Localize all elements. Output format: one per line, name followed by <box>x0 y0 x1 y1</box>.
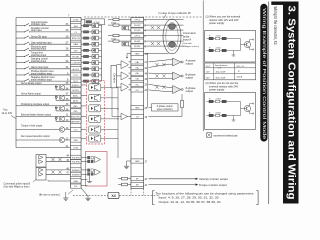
node sidebar chapter bar <box>283 2 299 204</box>
resistor row note 115.5 <box>207 115 241 117</box>
svg-text:COM+: COM+ <box>73 20 80 22</box>
wire dashed connector X4 line <box>73 194 160 196</box>
wire pin 30 internal <box>81 31 84 33</box>
svg-text:GAIN: GAIN <box>73 43 79 46</box>
twisted pair mark SIGN <box>151 42 154 45</box>
optocoupler input 31 <box>92 67 99 71</box>
wire pulse external <box>144 40 184 42</box>
svg-text:output: output <box>186 62 194 66</box>
svg-text:500kpps or less.): 500kpps or less.) <box>183 45 200 48</box>
wire input row 30 to pin <box>30 31 71 33</box>
pin box SIGN1 (5) <box>131 39 144 43</box>
connector right pin column outline <box>131 18 144 189</box>
resistor 220ohm <box>113 19 119 21</box>
note table <box>205 63 256 80</box>
svg-text:Torque monitor output: Torque monitor output <box>199 183 227 187</box>
pin box A-CLR <box>71 67 82 71</box>
switch input 31 <box>24 67 30 70</box>
svg-text:Velocity monitor output: Velocity monitor output <box>199 177 228 181</box>
pin box INP+ <box>71 104 82 108</box>
optocoupler input 32 <box>92 61 99 65</box>
pin box OPC2 (2) <box>131 34 144 38</box>
svg-text:220Ω: 220Ω <box>111 39 116 41</box>
svg-text:SRV-ON: SRV-ON <box>72 38 80 40</box>
resistor input 29 <box>84 37 89 39</box>
wire input row 9 leader <box>16 74 25 76</box>
svg-text:A-CLR: A-CLR <box>73 68 80 71</box>
twisted pair blobs in cable <box>169 24 176 30</box>
switch input 33 <box>24 24 30 27</box>
svg-text:OPC2: OPC2 <box>134 36 141 38</box>
wire GND13 internal <box>127 53 131 55</box>
svg-text:24V: 24V <box>206 77 210 79</box>
wire velocity monitor output <box>149 178 196 180</box>
svg-text:Alarm clear input: Alarm clear input <box>31 66 49 69</box>
connector left pin column outline <box>71 18 82 188</box>
pin box GND (17) <box>131 159 144 163</box>
twisted pair mark PULS <box>151 26 154 29</box>
svg-text:Wiring Example of Position Con: Wiring Example of Position Control Mode <box>262 8 267 140</box>
wire input row 8 leader <box>16 80 25 82</box>
pin box OPC1 (1) <box>131 18 144 22</box>
svg-text:S-RDY-: S-RDY- <box>72 90 79 92</box>
wire input row 27 to pin <box>30 43 71 45</box>
wire internal COM bus vertical <box>117 87 119 158</box>
twisted pair mark B-input lower <box>51 171 54 174</box>
wire pulse external <box>144 45 184 47</box>
resistor input 26 <box>84 55 89 57</box>
svg-text:clear input: clear input <box>31 29 42 32</box>
svg-text:SIGN1: SIGN1 <box>134 41 141 43</box>
ground symbol below X4 line left <box>63 196 68 201</box>
resistor input 8 <box>84 80 89 82</box>
optocoupler input 30 <box>92 30 99 34</box>
svg-text:220Ω: 220Ω <box>111 23 116 25</box>
wire pin 8 internal <box>81 80 84 82</box>
line driver 87.1 <box>121 83 129 91</box>
svg-text:INP+: INP+ <box>73 106 78 108</box>
svg-text:VDC−1.5: VDC−1.5 <box>237 66 245 68</box>
wire Vcc arrow leader <box>11 116 16 119</box>
pin box BRKOFF- <box>71 119 82 123</box>
resistor CZ pull-up <box>181 101 184 108</box>
ground mark note <box>233 116 235 121</box>
wire input row 28 to pin <box>30 49 71 51</box>
svg-text:X4: X4 <box>111 194 115 198</box>
optocoupler input 33 <box>92 24 99 28</box>
wire pin 9 internal <box>81 74 84 76</box>
receiver amp PULSH <box>95 157 101 163</box>
svg-text:COM-: COM- <box>73 148 79 150</box>
svg-text:travel inhibition input: travel inhibition input <box>31 72 52 75</box>
resistor row note 50.5 <box>207 50 241 52</box>
pin box ALM+ <box>71 93 82 97</box>
pin box GND <box>71 179 82 183</box>
wire COM+ internal <box>81 19 102 21</box>
wire dashed driver top boundary <box>84 16 203 18</box>
photocoupler output INP <box>89 105 101 112</box>
pin box CL <box>71 30 82 34</box>
ground mark note <box>233 51 235 56</box>
svg-text:12V: 12V <box>206 71 210 73</box>
resistor input 9 <box>84 74 89 76</box>
optocoupler input 28 <box>92 48 99 52</box>
output section Torque in-limit output <box>16 129 71 131</box>
wire pin 29 internal <box>81 37 84 39</box>
resistor input 32 <box>84 62 89 64</box>
switch input 27 <box>24 42 30 45</box>
svg-text:PULS1: PULS1 <box>134 25 141 27</box>
wire dashed right column drop left <box>130 189 132 195</box>
receiver A-phase <box>173 58 182 66</box>
output section Servo-Ready output <box>56 84 71 86</box>
svg-text:SIGNH1: SIGNH1 <box>72 170 81 172</box>
svg-text:2kΩ, 1/2W: 2kΩ, 1/2W <box>216 77 226 79</box>
resistor row note 38.5 <box>207 38 241 40</box>
svg-text:Vcc: Vcc <box>3 108 8 112</box>
svg-text:power supply: power supply <box>209 88 225 92</box>
wire pin 28 internal <box>81 49 84 51</box>
optocoupler input 9 <box>92 73 99 77</box>
svg-text:FG: FG <box>74 186 77 188</box>
svg-text:Gain switching input: Gain switching input <box>31 41 52 44</box>
output section External brake release output <box>56 115 71 117</box>
svg-text:travel inhibition input: travel inhibition input <box>31 78 52 81</box>
driver triangle B1 <box>39 168 43 172</box>
pin box PULS2 (4) <box>131 28 144 32</box>
wire pulse external <box>144 29 184 31</box>
svg-text:switching input: switching input <box>31 60 46 63</box>
wire page divider line <box>268 2 270 205</box>
resistor network receiver SIGNH <box>88 169 90 172</box>
receiver B-phase <box>173 72 182 80</box>
pin box INP- <box>71 109 82 113</box>
pin box CZ (19) <box>131 114 144 118</box>
optocoupler input 8 <box>92 79 99 83</box>
pin box GND (25) <box>131 106 144 110</box>
pin box PULS1 (3) <box>131 23 144 27</box>
wire input row 29 to pin <box>30 37 71 39</box>
pin box COM+ <box>71 18 82 22</box>
wire input row 32 leader <box>16 62 25 64</box>
switch input 30 <box>24 30 30 33</box>
pin box GAIN <box>71 42 82 46</box>
svg-text:PULSH1: PULSH1 <box>72 157 81 159</box>
svg-text:OZ-: OZ- <box>135 90 139 92</box>
svg-text:INH: INH <box>74 26 78 28</box>
svg-text:input A: input A <box>183 38 191 42</box>
svg-text:Positioning complete output: Positioning complete output <box>21 103 50 106</box>
module box 4.7k ohm COM+ <box>85 19 105 25</box>
driver triangle A2 <box>39 160 43 164</box>
pin box OA- (22) <box>131 65 144 69</box>
pin box FG <box>71 184 82 188</box>
wire GND25 external <box>149 107 155 109</box>
svg-text:4.7kΩ: 4.7kΩ <box>216 98 222 100</box>
bracket note about pin functions <box>153 191 155 205</box>
line driver 75.9 <box>121 72 129 80</box>
wire input row 31 leader <box>16 68 25 70</box>
pin box DIV <box>71 48 82 52</box>
wire driver gnd drop <box>47 180 49 181</box>
node sidebar black strip top <box>271 2 298 5</box>
svg-text:3. System Configuration and Wi: 3. System Configuration and Wiring <box>285 6 296 200</box>
svg-text:(open collector): (open collector) <box>157 108 173 111</box>
svg-text:C-MODE: C-MODE <box>72 63 81 65</box>
svg-text:GND: GND <box>135 54 140 56</box>
resistor IM <box>122 183 128 186</box>
wire encoder pair A-phase <box>149 60 169 62</box>
wire encoder pair Z-phase <box>149 84 169 87</box>
pin box NOT <box>71 79 82 83</box>
svg-text:OPC1: OPC1 <box>134 20 141 22</box>
svg-text:4.7kΩ: 4.7kΩ <box>216 112 222 114</box>
pin box ALM- <box>71 98 82 102</box>
pin box POT <box>71 73 82 77</box>
resistor pulse <box>113 24 119 26</box>
wire pin 26 internal <box>81 56 84 58</box>
optocoupler pulse <box>122 42 129 46</box>
svg-text:BRKOFF-: BRKOFF- <box>71 121 80 123</box>
wire input row 9 to pin <box>30 74 71 76</box>
wire pulse external <box>144 35 184 37</box>
output section Servo-Alarm output <box>56 94 71 96</box>
photocoupler output ALM <box>89 94 101 101</box>
svg-text:Input: 4, 9, 26, 27, 28, 29, 3: Input: 4, 9, 26, 27, 28, 29, 30, 31, 32,… <box>159 197 220 200</box>
wire pulse external <box>144 19 184 21</box>
resistor row note 101.5 <box>207 101 241 103</box>
photocoupler output S-RDY <box>89 84 101 91</box>
svg-text:INP-: INP- <box>74 111 78 113</box>
wire input row 31 to pin <box>30 68 71 70</box>
svg-text:inhibition input: inhibition input <box>31 23 46 26</box>
svg-text:ALM+: ALM+ <box>73 94 79 97</box>
pin box S-RDY+ <box>71 83 82 87</box>
pin box INH <box>71 24 82 28</box>
wire input row 32 to pin <box>30 62 71 64</box>
svg-text:SIGN2: SIGN2 <box>134 46 141 48</box>
svg-text:ALM-: ALM- <box>73 99 78 102</box>
svg-text:Zero speed detection output: Zero speed detection output <box>21 135 50 138</box>
wire internal COM+ bus <box>101 20 103 82</box>
svg-text:of R: of R <box>218 68 222 70</box>
pin box SP (43) <box>131 177 144 181</box>
ground symbol signal gnd <box>124 164 129 169</box>
svg-text:Output: 10·11, 12, 34·35, 36·3: Output: 10·11, 12, 34·35, 36·37, 38·39, … <box>159 201 222 204</box>
wire COM- row <box>16 147 71 149</box>
svg-text:switching input: switching input <box>31 54 46 57</box>
svg-text:Command pulse input B: Command pulse input B <box>4 182 31 185</box>
wire Vcc supply bus vertical <box>15 18 17 148</box>
svg-text:POT: POT <box>74 75 79 77</box>
wire input row 28 leader <box>16 49 25 51</box>
optocoupler pulse <box>122 26 129 30</box>
svg-text:PULS2: PULS2 <box>134 30 141 32</box>
svg-text:TLC: TLC <box>74 130 78 132</box>
highlight red solid box (high-speed pulse receivers) <box>86 152 108 187</box>
svg-text:IM: IM <box>136 185 139 187</box>
svg-text:Wiring to the connector, X4: Wiring to the connector, X4 <box>273 7 278 45</box>
svg-text:Z-phase output: Z-phase output <box>157 105 173 108</box>
svg-text:The functions of the following: The functions of the following pin can b… <box>155 192 254 195</box>
note twisted pair legend <box>207 133 212 137</box>
driver triangle B2 <box>39 173 43 177</box>
resistor pulse <box>113 40 119 42</box>
svg-text:1kΩ, 1/2W: 1kΩ, 1/2W <box>216 71 226 73</box>
resistor SP <box>122 177 128 180</box>
wire input row 26 leader <box>16 56 25 58</box>
transistor note <box>240 39 242 51</box>
svg-text:Torque in-limit output: Torque in-limit output <box>21 125 43 128</box>
resistor 220ohm <box>113 35 119 37</box>
wire input row 29 leader <box>16 37 25 39</box>
wire receiver gnd drop <box>89 176 91 182</box>
svg-text:output: output <box>186 89 194 93</box>
pin box SIGNH2 <box>71 172 82 176</box>
svg-text:switching input: switching input <box>31 48 46 51</box>
label Z-phase output open collector <box>152 104 179 111</box>
cable shield oval (twisted pair bundle) <box>163 19 181 54</box>
svg-text:PULSH2: PULSH2 <box>72 162 81 164</box>
pin box BRKOFF+ <box>71 114 82 118</box>
photocoupler output TLC <box>89 126 101 133</box>
svg-text:V DC: V DC <box>206 66 211 68</box>
svg-text:12 to 24V: 12 to 24V <box>2 112 13 115</box>
line driver CZ <box>111 88 113 117</box>
pin box OB+ (48) <box>131 71 144 75</box>
pin box S-RDY- <box>71 88 82 92</box>
svg-text:4.7kΩ: 4.7kΩ <box>216 35 222 37</box>
pin box COM- <box>71 145 82 149</box>
ground symbol shield right <box>85 196 90 201</box>
resistor network receiver PULSH <box>88 156 90 159</box>
wire PULSH/SIGNH row 47 <box>46 173 71 175</box>
transistor note <box>240 102 242 116</box>
svg-text:S-RDY+: S-RDY+ <box>72 85 80 87</box>
svg-text:VS-SEL: VS-SEL <box>72 57 80 59</box>
switch input 32 <box>24 60 30 63</box>
optocoupler input 26 <box>92 55 99 59</box>
wire pin 27 internal <box>81 43 84 45</box>
note box 1 <box>205 31 256 63</box>
pin box OZ- (24) <box>131 88 144 92</box>
wire notes column separator <box>202 1 204 132</box>
resistor input 31 <box>84 68 89 70</box>
photocoupler output ZSP <box>89 135 101 142</box>
switch input 29 <box>24 36 30 39</box>
wire PULSH/SIGNH row 45 <box>46 161 71 163</box>
svg-text:OB-: OB- <box>135 79 139 81</box>
wire GND row <box>48 180 71 182</box>
svg-text:Servo-ON input: Servo-ON input <box>31 35 47 38</box>
wire pin 33 internal <box>81 25 84 27</box>
pin box OB- (49) <box>131 77 144 81</box>
svg-text:(Be sure to connect.): (Be sure to connect.) <box>39 193 61 196</box>
pin box SIGN2 (6) <box>131 44 144 48</box>
driver triangle A1 <box>39 156 43 160</box>
pin box PULSH2 <box>71 160 82 164</box>
note box 2 <box>205 93 256 130</box>
svg-text:4.7kΩ: 4.7kΩ <box>216 47 222 49</box>
svg-text:output: output <box>186 76 194 80</box>
IC divider block <box>111 65 117 87</box>
highlight red dashed box (output circuits) <box>87 80 105 144</box>
svg-text:(Use with 4Mpps or less.): (Use with 4Mpps or less.) <box>4 186 30 189</box>
pin box TLC <box>71 127 82 131</box>
wire GND17 internal <box>127 160 132 162</box>
wire COM+ top feed <box>16 17 71 19</box>
IC external line driver box 2 <box>36 168 46 181</box>
svg-text:(Use with: (Use with <box>183 42 193 45</box>
connector tag X4 <box>108 192 119 198</box>
wire input row 26 to pin <box>30 56 71 58</box>
receiver amp SIGNH <box>95 169 101 175</box>
line driver 64.7 <box>121 61 129 69</box>
resistor input 27 <box>84 43 89 45</box>
svg-text:power supply: power supply <box>209 21 225 25</box>
svg-text:SIGNH2: SIGNH2 <box>72 174 81 176</box>
svg-text:BRKOFF+: BRKOFF+ <box>71 116 81 118</box>
pin box GND (13) <box>131 51 144 55</box>
wire PULSH/SIGNH row 46 <box>46 169 71 171</box>
svg-text:represents twisted pair.: represents twisted pair. <box>214 134 239 137</box>
photocoupler output BRKOFF <box>89 115 101 122</box>
wire input row 27 leader <box>16 43 25 45</box>
node capsule label bar <box>260 4 267 142</box>
svg-text:GND: GND <box>73 181 78 183</box>
svg-text:GND: GND <box>135 108 140 110</box>
twisted pair mark B-input upper <box>51 158 54 161</box>
switch input 9 <box>24 73 30 76</box>
resistor input 33 <box>84 25 89 27</box>
pin box SIGNH1 <box>71 168 82 172</box>
wire PULSH/SIGNH row 44 <box>46 156 71 158</box>
optocoupler input 29 <box>92 36 99 40</box>
wire FG shield diagonal <box>81 188 88 196</box>
svg-text:OA-: OA- <box>135 67 139 70</box>
svg-text:External brake release output: External brake release output <box>21 113 51 116</box>
wire pin 31 internal <box>81 68 84 70</box>
wire pin 32 internal <box>81 62 84 64</box>
wire input row 30 leader <box>16 31 25 33</box>
IC external line driver box 1 <box>36 155 46 168</box>
output section Zero speed detection output <box>16 139 71 141</box>
switch input 28 <box>24 48 30 51</box>
pin box SRV-ON <box>71 36 82 40</box>
svg-text:≈10mA: ≈10mA <box>236 76 243 79</box>
pin box OZ+ (23) <box>131 82 144 86</box>
wire input row 33 leader <box>16 25 25 27</box>
receiver Z-phase <box>173 86 182 94</box>
svg-text:DIV: DIV <box>74 50 78 52</box>
resistor input 30 <box>84 31 89 33</box>
wire FG label leader <box>68 190 73 194</box>
wire CZ open collector <box>149 116 183 118</box>
output section Positioning complete output <box>56 105 71 107</box>
svg-text:ZSP: ZSP <box>74 140 79 142</box>
svg-text:Servo-Ready output: Servo-Ready output <box>21 82 42 85</box>
pin box ZSP <box>71 138 82 142</box>
switch input 26 <box>24 54 30 57</box>
svg-text:In case of open collector I/F: In case of open collector I/F <box>159 11 192 15</box>
pin box PULSH1 <box>71 155 82 159</box>
svg-text:GND: GND <box>135 161 140 163</box>
wire pulse external <box>144 24 184 26</box>
wire dashed right column drop right <box>143 189 145 195</box>
switch input 8 <box>24 79 30 82</box>
svg-text:Divider: Divider <box>113 73 117 83</box>
wire encoder shield drop <box>147 54 149 108</box>
